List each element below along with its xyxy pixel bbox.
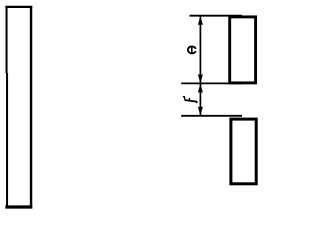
left plate top edge <box>5 6 32 8</box>
left plate left edge upper segment <box>6 6 8 74</box>
left plate bottom edge <box>5 205 32 208</box>
dimension line f <box>199 83 201 115</box>
left plate left edge lower segment <box>6 73 8 208</box>
arrowhead e top (up) <box>198 16 203 25</box>
left plate outline <box>5 6 32 208</box>
extension line middle <box>181 82 242 84</box>
label f top curl <box>184 97 186 101</box>
arrowhead e bottom (down) <box>198 75 203 84</box>
arrowhead f top (up) <box>198 84 203 93</box>
top right plate <box>230 17 256 83</box>
label f crossbar <box>188 99 190 101</box>
arrowhead f bottom (down) <box>198 107 203 116</box>
label f stem <box>185 100 197 102</box>
label e bar <box>191 47 193 54</box>
label f (italic f rotated 90deg CCW, drawn as path: horizontal stem, top curl at left, crossbar tick) <box>184 97 197 103</box>
bottom right plate <box>231 119 256 184</box>
extension line lower <box>181 115 242 117</box>
extension line top <box>190 15 243 17</box>
label e (italic e rotated 90deg CCW, drawn as path: ring with vertical bar, gap at right) <box>188 46 196 53</box>
left plate right edge <box>30 6 32 208</box>
dimension line e <box>199 16 201 84</box>
label e ring <box>188 46 196 53</box>
